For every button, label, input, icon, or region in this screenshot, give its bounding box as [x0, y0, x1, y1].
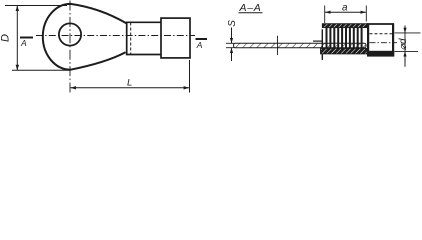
centerline horizontal axis	[36, 35, 195, 37]
dimension d line lower stem	[404, 52, 406, 67]
dimension D extension line top	[5, 5, 67, 7]
dimension S line lower stem	[231, 48, 233, 61]
dimension L line	[70, 87, 190, 89]
dimension S extension line bottom	[226, 47, 234, 49]
svg-text:⌀d: ⌀d	[398, 38, 409, 50]
sleeve right part left thick edge	[367, 23, 369, 56]
dimension S line upper stem	[231, 28, 233, 44]
bore hidden line	[370, 33, 393, 35]
sleeve right part top edge	[367, 23, 394, 25]
dimension d line middle segment	[404, 33, 406, 52]
dimension D line	[16, 6, 18, 70]
section mark A right	[196, 38, 208, 40]
dimension D arrow bottom	[16, 65, 19, 71]
dimension S arrow upper	[230, 38, 233, 43]
sleeve left end face	[321, 29, 323, 60]
insulation sleeve rectangle	[161, 18, 190, 58]
section title underline	[239, 12, 263, 14]
section mark A left	[20, 37, 33, 39]
dimension a line	[325, 11, 367, 13]
dimension a arrow right	[361, 11, 367, 14]
sleeve bottom wall left part	[321, 48, 368, 54]
hidden edge dashed line in barrel	[130, 23, 132, 55]
dimension d extension line bottom	[395, 50, 419, 52]
transition tick line	[277, 36, 279, 55]
sleeve right part right thick edge	[392, 23, 394, 56]
svg-text:a: a	[342, 3, 348, 14]
svg-text:D: D	[0, 34, 12, 42]
svg-text:A: A	[196, 40, 203, 50]
svg-text:S: S	[227, 20, 238, 27]
crimp serration lines	[327, 28, 362, 49]
svg-text:L: L	[127, 78, 132, 89]
dimension d extension line top	[395, 32, 421, 34]
barrel mouth flare top line	[313, 40, 322, 42]
dimension a extension line right	[365, 6, 367, 22]
dimension d arrow lower	[403, 51, 406, 56]
dimension d arrow upper	[403, 28, 406, 33]
ring terminal outer outline	[43, 4, 126, 70]
terminal hole	[59, 23, 81, 45]
dimension a arrow left	[325, 11, 331, 14]
sleeve top wall left part	[322, 24, 367, 28]
sleeve right part bottom wall	[367, 51, 394, 57]
dimension S arrow lower	[230, 48, 233, 53]
svg-text:A: A	[20, 38, 27, 48]
svg-text:A–A: A–A	[239, 2, 262, 14]
tongue strip in section	[234, 43, 366, 47]
dimension L arrow right	[184, 86, 190, 89]
dimension L arrow left	[70, 86, 76, 89]
dimension a extension line left	[324, 6, 326, 24]
crimp barrel rectangle	[127, 22, 161, 54]
sleeve centerline	[370, 42, 398, 44]
hole vertical centerline / L extension line	[69, 1, 71, 93]
dimension L extension line right	[189, 60, 191, 93]
dimension D arrow top	[16, 6, 19, 12]
dimension d line upper stem	[404, 26, 406, 33]
dimension D extension line bottom	[12, 69, 71, 71]
dimension S extension line top	[226, 42, 234, 44]
